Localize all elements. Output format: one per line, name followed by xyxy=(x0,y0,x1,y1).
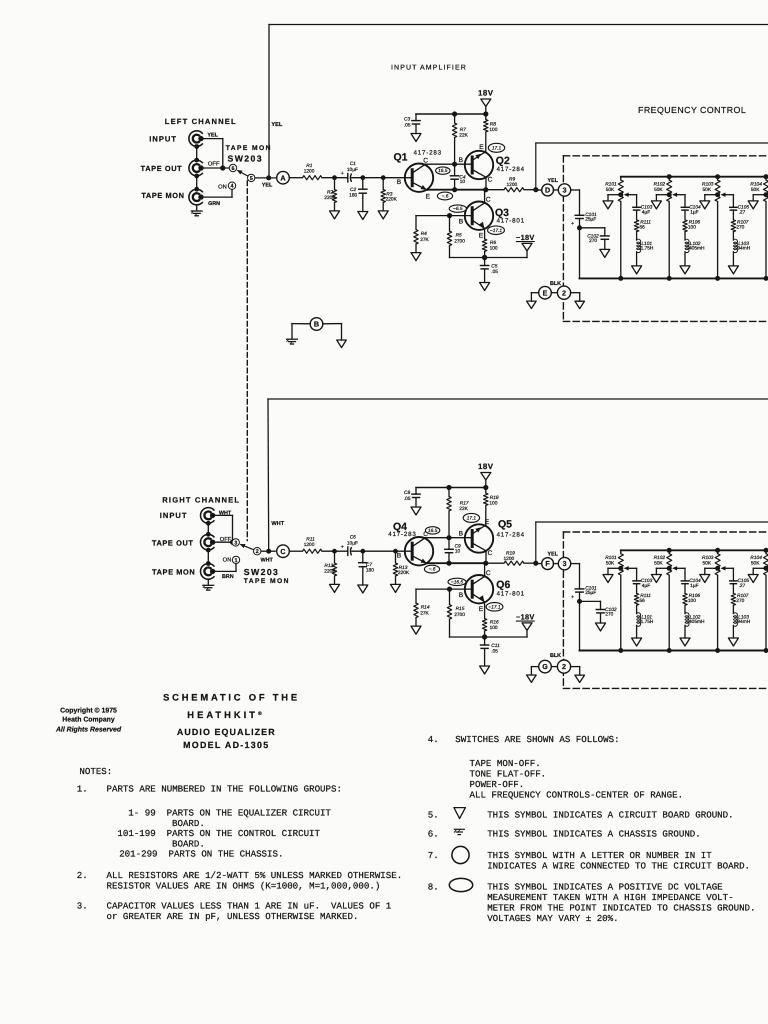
node G BLK wire to circuit board xyxy=(531,653,579,675)
circuit board ground xyxy=(603,575,613,583)
capacitor C6 10uF xyxy=(341,535,358,556)
switch contact 4 ON xyxy=(218,182,236,190)
wire wiper ground branch xyxy=(656,568,669,574)
svg-text:100: 100 xyxy=(489,501,497,507)
svg-text:R19: R19 xyxy=(506,551,515,557)
circuit board ground xyxy=(480,666,490,674)
svg-text:1- 99 PARTS ON THE EQUALIZER: 1- 99 PARTS ON THE EQUALIZER CIRCUIT xyxy=(128,808,331,819)
svg-text:C: C xyxy=(488,177,493,184)
svg-text:417-284: 417-284 xyxy=(497,531,525,538)
circuit board ground xyxy=(632,638,642,646)
wire jack ground chain xyxy=(194,144,199,211)
wire wiper ground branch xyxy=(753,568,766,574)
svg-text:C6: C6 xyxy=(350,535,356,541)
svg-text:R101: R101 xyxy=(605,182,617,188)
svg-text:.05: .05 xyxy=(404,496,411,502)
circuit board ground xyxy=(391,584,401,592)
resistor R13 220K xyxy=(393,551,410,584)
circuit board ground xyxy=(651,575,661,583)
svg-text:405mH: 405mH xyxy=(689,619,705,625)
chassis ground below jacks xyxy=(203,584,214,586)
voltage oval −.6 xyxy=(424,565,439,573)
resistor R106 100 xyxy=(683,210,701,232)
svg-text:94mH: 94mH xyxy=(737,619,750,625)
node OFF junction xyxy=(220,165,225,170)
chassis ground xyxy=(287,338,298,340)
svg-text:50K: 50K xyxy=(703,187,712,193)
svg-text:+: + xyxy=(571,595,574,601)
node F wire to circuit board xyxy=(536,551,571,569)
resistor R7 22K xyxy=(452,114,468,164)
svg-text:−16.5: −16.5 xyxy=(451,580,463,586)
svg-text:THIS SYMBOL INDICATES A CHASSI: THIS SYMBOL INDICATES A CHASSIS GROUND. xyxy=(487,829,701,840)
svg-text:B: B xyxy=(459,531,464,538)
svg-text:R104: R104 xyxy=(750,555,762,561)
note 2 xyxy=(77,870,402,892)
svg-text:CAPACITOR VALUES LESS THAN 1 A: CAPACITOR VALUES LESS THAN 1 ARE IN uF. … xyxy=(107,901,392,912)
svg-text:INPUT AMPLIFIER: INPUT AMPLIFIER xyxy=(391,65,467,72)
resistor R1 1200 xyxy=(303,163,323,180)
wire +18V rail xyxy=(416,485,488,490)
svg-text:−18V: −18V xyxy=(516,233,535,242)
circuit board ground xyxy=(700,575,710,583)
svg-text:.27: .27 xyxy=(739,583,746,589)
resistor R6 100 xyxy=(482,228,498,257)
svg-text:R104: R104 xyxy=(750,182,762,188)
wire chain to ground xyxy=(732,625,734,638)
svg-text:2700: 2700 xyxy=(454,612,465,618)
svg-text:100: 100 xyxy=(489,127,497,133)
node D wire to circuit board xyxy=(536,178,571,196)
node R2 junction xyxy=(332,175,337,180)
wire wiper ground branch xyxy=(608,195,621,201)
svg-text:10: 10 xyxy=(455,548,461,554)
svg-text:3: 3 xyxy=(234,540,237,546)
svg-text:180: 180 xyxy=(349,193,357,199)
svg-text:4: 4 xyxy=(231,184,234,190)
svg-text:R11: R11 xyxy=(306,537,315,543)
svg-text:ON: ON xyxy=(218,183,227,190)
dashed gang link SW203 xyxy=(246,181,248,541)
svg-text:R107: R107 xyxy=(737,593,749,599)
svg-text:MEASUREMENT TAKEN WITH A HIGH: MEASUREMENT TAKEN WITH A HIGH IMPEDANCE … xyxy=(487,892,733,903)
svg-text:.05: .05 xyxy=(491,269,498,275)
capacitor C8 .05 xyxy=(404,488,420,508)
wire Q2 collector to rail xyxy=(485,551,487,563)
capacitor C11 .05 xyxy=(481,637,501,666)
wire BRN TAPE MON to ON contact xyxy=(213,564,236,580)
node E BLK wire to circuit board xyxy=(531,281,579,301)
circuit board ground xyxy=(680,638,690,646)
capacitor C103 4µF xyxy=(633,568,653,589)
svg-text:TAPE MON-OFF.: TAPE MON-OFF. xyxy=(470,758,541,769)
svg-text:27K: 27K xyxy=(420,237,429,243)
circuit board ground xyxy=(600,249,610,257)
resistor R111 56 xyxy=(634,584,651,606)
svg-text:MODEL AD-1305: MODEL AD-1305 xyxy=(183,740,269,750)
svg-text:AUDIO EQUALIZER: AUDIO EQUALIZER xyxy=(177,727,276,737)
voltage oval −17.1 xyxy=(486,603,503,612)
svg-text:2.: 2. xyxy=(77,870,88,881)
svg-text:+: + xyxy=(341,171,344,177)
potentiometer R104 50K xyxy=(750,548,768,653)
note 3 xyxy=(77,901,392,923)
svg-text:WHT: WHT xyxy=(271,521,284,527)
svg-text:TAPE OUT: TAPE OUT xyxy=(152,538,194,547)
svg-text:R2: R2 xyxy=(327,189,333,195)
inductor L103 94mH xyxy=(733,605,750,626)
svg-text:270: 270 xyxy=(589,238,597,244)
svg-text:C11: C11 xyxy=(491,643,500,649)
svg-text:B: B xyxy=(397,179,402,186)
svg-text:YEL: YEL xyxy=(271,122,282,128)
note 7 wire circle symbol xyxy=(428,846,750,871)
wire wiper ground branch xyxy=(753,195,766,201)
svg-text:16.5: 16.5 xyxy=(438,168,448,174)
svg-text:R9: R9 xyxy=(509,177,515,183)
capacitor C1 10uF xyxy=(341,161,358,182)
svg-text:E: E xyxy=(543,288,548,297)
svg-text:B: B xyxy=(459,157,464,164)
svg-text:R101: R101 xyxy=(605,555,617,561)
svg-text:Q1: Q1 xyxy=(394,151,408,163)
voltage oval −.6 xyxy=(437,192,452,200)
wire YEL from INPUT jack xyxy=(201,133,223,168)
svg-text:C3: C3 xyxy=(404,117,410,123)
svg-text:R107: R107 xyxy=(737,219,749,225)
svg-text:R15: R15 xyxy=(456,606,465,612)
svg-text:B: B xyxy=(397,552,402,559)
svg-text:THIS SYMBOL WITH A LETTER OR N: THIS SYMBOL WITH A LETTER OR NUMBER IN I… xyxy=(487,850,712,861)
svg-text:1200: 1200 xyxy=(304,168,315,174)
svg-text:RIGHT CHANNEL: RIGHT CHANNEL xyxy=(162,495,240,504)
wire output line right channel y522 xyxy=(536,522,768,564)
chassis ground below jacks xyxy=(191,210,202,212)
frequency control dashed box xyxy=(563,156,768,322)
resistor R2 220K xyxy=(324,178,336,211)
wire bottom rail xyxy=(450,255,528,260)
resistor R8 100 xyxy=(484,114,498,152)
wire Q2 emitter xyxy=(485,524,487,526)
svg-text:22K: 22K xyxy=(459,506,468,512)
svg-text:1.75H: 1.75H xyxy=(641,619,654,625)
resistor R17 22K xyxy=(447,488,469,538)
circuit board ground xyxy=(632,266,642,274)
svg-text:1.75H: 1.75H xyxy=(641,246,654,252)
svg-text:R111: R111 xyxy=(640,593,651,599)
inductor L101 1.75H xyxy=(637,232,654,253)
jack INPUT xyxy=(160,508,216,524)
svg-text:Copyright © 1975: Copyright © 1975 xyxy=(60,707,117,714)
svg-text:Heath Company: Heath Company xyxy=(62,717,115,724)
note 6 chassis ground symbol xyxy=(428,829,701,840)
svg-text:PARTS ARE NUMBERED IN THE FOLL: PARTS ARE NUMBERED IN THE FOLLOWING GROU… xyxy=(107,784,342,795)
svg-text:3: 3 xyxy=(563,559,567,568)
circuit board ground xyxy=(748,575,758,583)
svg-text:50K: 50K xyxy=(606,561,615,567)
capacitor C104 1µF xyxy=(681,568,701,589)
wire top bus xyxy=(621,176,768,178)
switch contact 6 OFF xyxy=(229,164,236,171)
svg-text:270: 270 xyxy=(605,612,613,618)
svg-text:1µF: 1µF xyxy=(690,209,698,215)
circuit board ground xyxy=(411,507,421,515)
svg-text:417-801: 417-801 xyxy=(497,218,525,225)
potentiometer R103 50K xyxy=(702,548,720,653)
node R3 junction xyxy=(393,549,398,554)
capacitor C7 180 xyxy=(359,551,375,585)
svg-text:180: 180 xyxy=(366,568,374,574)
wire Q1 collector to R7 node xyxy=(425,162,473,167)
svg-text:417-283: 417-283 xyxy=(414,149,442,156)
svg-text:R6: R6 xyxy=(490,240,496,246)
resistor R107 270 xyxy=(731,210,749,232)
svg-text:A: A xyxy=(280,173,285,182)
svg-text:G: G xyxy=(542,662,548,671)
svg-text:R111: R111 xyxy=(640,219,651,225)
svg-text:+: + xyxy=(341,545,344,551)
svg-text:−17.1: −17.1 xyxy=(490,228,502,234)
circuit board ground xyxy=(680,266,690,274)
svg-text:7.: 7. xyxy=(428,850,439,861)
wire +18V rail xyxy=(416,111,488,116)
svg-text:1200: 1200 xyxy=(504,556,515,562)
wire GRN TAPE MON to ON contact xyxy=(201,190,232,208)
svg-text:8.: 8. xyxy=(428,881,439,892)
note 1 xyxy=(77,784,342,860)
circuit board ground xyxy=(378,211,388,219)
svg-text:SW203: SW203 xyxy=(244,567,279,577)
svg-text:220K: 220K xyxy=(324,568,336,574)
potentiometer R102 50K xyxy=(654,548,672,653)
wire chain to ground xyxy=(636,252,638,266)
wire bottom bus xyxy=(580,277,768,279)
svg-text:17.1: 17.1 xyxy=(492,145,502,151)
svg-text:25µF: 25µF xyxy=(585,590,596,596)
svg-text:18V: 18V xyxy=(478,89,494,98)
svg-text:TAPE MON: TAPE MON xyxy=(226,145,272,152)
svg-text:YEL: YEL xyxy=(548,178,559,184)
wire xyxy=(352,177,412,179)
svg-text:C7: C7 xyxy=(366,562,372,568)
svg-text:1200: 1200 xyxy=(507,182,518,188)
svg-text:D: D xyxy=(545,186,550,195)
svg-text:R14: R14 xyxy=(421,605,430,611)
circuit board ground xyxy=(728,638,738,646)
resistor R107 270 xyxy=(731,584,749,606)
wire chain to ground xyxy=(684,625,686,638)
svg-text:TAPE MON: TAPE MON xyxy=(141,191,184,200)
svg-text:R102: R102 xyxy=(654,555,666,561)
svg-text:ALL FREQUENCY CONTROLS-CENTER: ALL FREQUENCY CONTROLS-CENTER OF RANGE. xyxy=(470,789,684,800)
svg-text:VOLTAGES MAY VARY ± 20%.: VOLTAGES MAY VARY ± 20%. xyxy=(487,913,618,924)
svg-text:SWITCHES ARE SHOWN AS FOLLOWS:: SWITCHES ARE SHOWN AS FOLLOWS: xyxy=(455,734,619,745)
svg-text:R103: R103 xyxy=(702,182,714,188)
wire jack ground chain xyxy=(206,521,211,585)
voltage oval 16.5 xyxy=(436,167,450,174)
svg-text:SW203: SW203 xyxy=(228,153,264,163)
svg-text:C: C xyxy=(488,550,493,557)
svg-text:1.: 1. xyxy=(77,784,88,795)
transistor Q5 417-284 xyxy=(459,519,525,558)
svg-text:YEL: YEL xyxy=(548,551,559,557)
wire Q2 emitter xyxy=(485,151,487,153)
wire TAPE OUT to OFF contact xyxy=(201,161,229,168)
wire TAPE OUT to OFF contact xyxy=(213,536,232,543)
svg-text:.05: .05 xyxy=(491,649,498,655)
svg-text:Q6: Q6 xyxy=(496,579,510,591)
svg-text:ALL RESISTORS ARE 1/2-WATT 5%: ALL RESISTORS ARE 1/2-WATT 5% UNLESS MAR… xyxy=(107,870,403,881)
capacitor C101 25uF xyxy=(571,586,597,601)
svg-text:C: C xyxy=(423,157,428,164)
svg-text:−17.1: −17.1 xyxy=(488,604,500,610)
jack TAPE MON xyxy=(152,564,215,580)
capacitor C5 .05 xyxy=(481,258,499,283)
wire Q2 collector to rail xyxy=(485,177,487,189)
svg-text:C: C xyxy=(486,196,491,203)
svg-text:270: 270 xyxy=(736,598,744,604)
svg-text:C8: C8 xyxy=(404,490,410,496)
label SW203 TAPE MON xyxy=(244,567,290,585)
svg-text:FREQUENCY CONTROL: FREQUENCY CONTROL xyxy=(638,105,746,115)
circuit board ground xyxy=(700,201,710,209)
svg-text:16.5: 16.5 xyxy=(428,528,438,534)
svg-text:6: 6 xyxy=(232,166,235,172)
jack TAPE MON xyxy=(141,189,203,205)
svg-text:R103: R103 xyxy=(702,555,714,561)
svg-text:100: 100 xyxy=(688,598,696,604)
svg-text:+: + xyxy=(571,221,574,227)
wire emitter-collector rail xyxy=(427,187,488,192)
node R3 junction xyxy=(381,175,386,180)
resistor R11 1200 xyxy=(303,537,323,554)
svg-text:INPUT: INPUT xyxy=(160,511,188,520)
wire xyxy=(322,550,347,552)
svg-text:94mH: 94mH xyxy=(737,246,750,252)
wire bottom bus xyxy=(580,650,768,652)
wire wiper ground branch xyxy=(656,195,669,201)
resistor R4 27K xyxy=(414,216,430,253)
svg-text:2: 2 xyxy=(562,288,566,297)
capacitor C103 4µF xyxy=(633,195,653,216)
resistor R3 220K xyxy=(381,178,398,211)
capacitor C105 .27 xyxy=(730,568,750,589)
svg-text:3: 3 xyxy=(563,186,567,195)
wire switch arm to input node xyxy=(255,175,276,188)
svg-text:5.: 5. xyxy=(428,809,439,820)
power -18V xyxy=(516,233,535,258)
node A circuit board wire xyxy=(277,171,290,184)
circuit board ground xyxy=(527,301,537,308)
svg-text:BOARD.: BOARD. xyxy=(172,838,205,849)
svg-text:1200: 1200 xyxy=(304,542,315,548)
switch arm SW203 contact 2 xyxy=(240,544,261,555)
potentiometer R104 50K xyxy=(750,174,768,281)
wiper of R103 xyxy=(715,192,733,197)
inductor L102 405mH xyxy=(685,605,705,626)
wire Q3 collector up to rail xyxy=(484,190,486,203)
svg-text:18V: 18V xyxy=(478,462,494,471)
svg-text:R17: R17 xyxy=(460,501,469,507)
frequency control dashed box xyxy=(563,532,768,688)
svg-text:.05: .05 xyxy=(404,122,411,128)
svg-text:1: 1 xyxy=(235,558,238,564)
wire chain to ground xyxy=(684,252,686,266)
circuit board ground xyxy=(358,585,368,593)
svg-text:INDICATES A WIRE CONNECTED TO: INDICATES A WIRE CONNECTED TO THE CIRCUI… xyxy=(487,860,750,871)
svg-text:−18V: −18V xyxy=(516,612,535,621)
svg-text:220K: 220K xyxy=(398,570,410,576)
inductor L101 1.75H xyxy=(637,605,654,626)
capacitor C2 180 xyxy=(349,178,367,212)
svg-text:R18: R18 xyxy=(490,495,499,501)
capacitor C3 .05 xyxy=(404,114,420,134)
voltage oval 17.1 xyxy=(463,513,479,522)
svg-text:RESISTOR VALUES ARE IN OHMS (K: RESISTOR VALUES ARE IN OHMS (K=1000, M=1… xyxy=(107,881,381,892)
svg-text:HEATHKIT®: HEATHKIT® xyxy=(187,709,264,720)
wire C101 to bottom bus xyxy=(577,592,582,650)
svg-text:56: 56 xyxy=(640,598,646,604)
svg-text:417-283: 417-283 xyxy=(388,531,416,538)
svg-text:56: 56 xyxy=(640,225,646,231)
wire output line left channel y143 xyxy=(536,143,768,190)
note 8 voltage oval symbol xyxy=(428,878,756,924)
svg-text:R16: R16 xyxy=(490,620,499,626)
svg-text:50K: 50K xyxy=(654,187,663,193)
resistor R16 100 xyxy=(482,602,499,637)
potentiometer R101 50K xyxy=(605,177,623,281)
svg-text:R106: R106 xyxy=(689,219,701,225)
node C circuit board wire xyxy=(277,545,290,558)
transistor Q3 417-801 xyxy=(459,196,525,239)
circuit board ground xyxy=(748,201,758,209)
svg-text:−6.5: −6.5 xyxy=(453,206,463,212)
wire C101 to bottom bus xyxy=(577,219,582,279)
svg-text:417-284: 417-284 xyxy=(497,166,525,173)
svg-text:C1: C1 xyxy=(350,161,356,167)
svg-text:YEL: YEL xyxy=(262,183,273,189)
svg-text:2: 2 xyxy=(256,549,259,555)
svg-text:−.6: −.6 xyxy=(429,567,436,573)
svg-text:−.6: −.6 xyxy=(442,194,449,200)
svg-text:17.1: 17.1 xyxy=(467,516,477,522)
svg-text:4µF: 4µF xyxy=(642,583,650,589)
svg-text:100: 100 xyxy=(490,246,498,252)
svg-text:C5: C5 xyxy=(491,264,497,270)
svg-text:R106: R106 xyxy=(689,593,701,599)
title SCHEMATIC OF THE HEATHKIT xyxy=(163,691,300,750)
wire chain to ground xyxy=(636,625,638,638)
circuit board ground xyxy=(596,623,606,631)
potentiometer R102 50K xyxy=(654,174,672,281)
svg-text:R12: R12 xyxy=(324,563,333,569)
circuit board ground xyxy=(330,211,340,219)
svg-text:B: B xyxy=(459,592,464,599)
circuit board ground xyxy=(411,626,421,634)
svg-text:201-299 PARTS ON THE CHASSIS.: 201-299 PARTS ON THE CHASSIS. xyxy=(119,849,283,860)
capacitor C102 270 xyxy=(580,228,610,250)
svg-text:10: 10 xyxy=(460,179,466,185)
svg-text:TAPE MON: TAPE MON xyxy=(152,568,195,577)
svg-text:B: B xyxy=(314,320,319,329)
wire chain to ground xyxy=(732,252,734,266)
svg-text:10µF: 10µF xyxy=(347,541,358,547)
svg-text:2: 2 xyxy=(562,662,566,671)
svg-text:50K: 50K xyxy=(654,561,663,567)
wiper of R103 xyxy=(715,566,733,571)
wire emitter-collector rail xyxy=(427,561,488,566)
transistor Q4 417-283 xyxy=(388,521,433,574)
